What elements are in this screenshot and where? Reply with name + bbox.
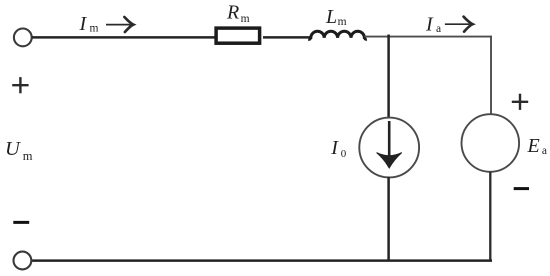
voltage source Ea circle [462,114,520,172]
terminal top-left [14,29,32,47]
minus sign right (Ea) [514,187,529,190]
svg-text:L: L [325,6,337,28]
resistor R_m [216,28,260,43]
arrow I_a [445,17,473,32]
I0 arrowhead [377,153,402,168]
minus sign left (Um) [13,221,29,224]
wire top-left horizontal [32,36,215,39]
svg-text:E: E [527,135,540,157]
svg-text:a: a [542,145,547,157]
svg-text:a: a [436,23,441,35]
plus sign right (Ea) [512,94,528,110]
svg-text:m: m [241,13,250,25]
current source I0 circle [359,118,419,178]
svg-text:m: m [338,16,347,28]
svg-text:m: m [90,22,99,34]
svg-text:0: 0 [341,148,347,160]
plus sign left (Um) [12,77,28,93]
wire top-right rail down to Ea [490,36,492,115]
wire below Ea to bottom [489,172,491,261]
wire inductor to top-right corner [364,36,492,38]
svg-text:m: m [23,149,33,163]
svg-text:I: I [330,137,339,159]
svg-text:I: I [425,14,434,36]
arrow I_m [106,17,133,32]
I0 arrow shaft [388,121,391,160]
svg-text:U: U [5,138,21,160]
wire junction node down to I0 [387,35,390,118]
wire resistor to inductor [263,36,311,39]
svg-text:I: I [79,13,88,35]
terminal bottom-left [14,252,32,270]
bottom wire [32,259,493,262]
wire below I0 to bottom [387,177,390,261]
inductor L_m [310,31,366,40]
svg-text:R: R [226,2,239,24]
